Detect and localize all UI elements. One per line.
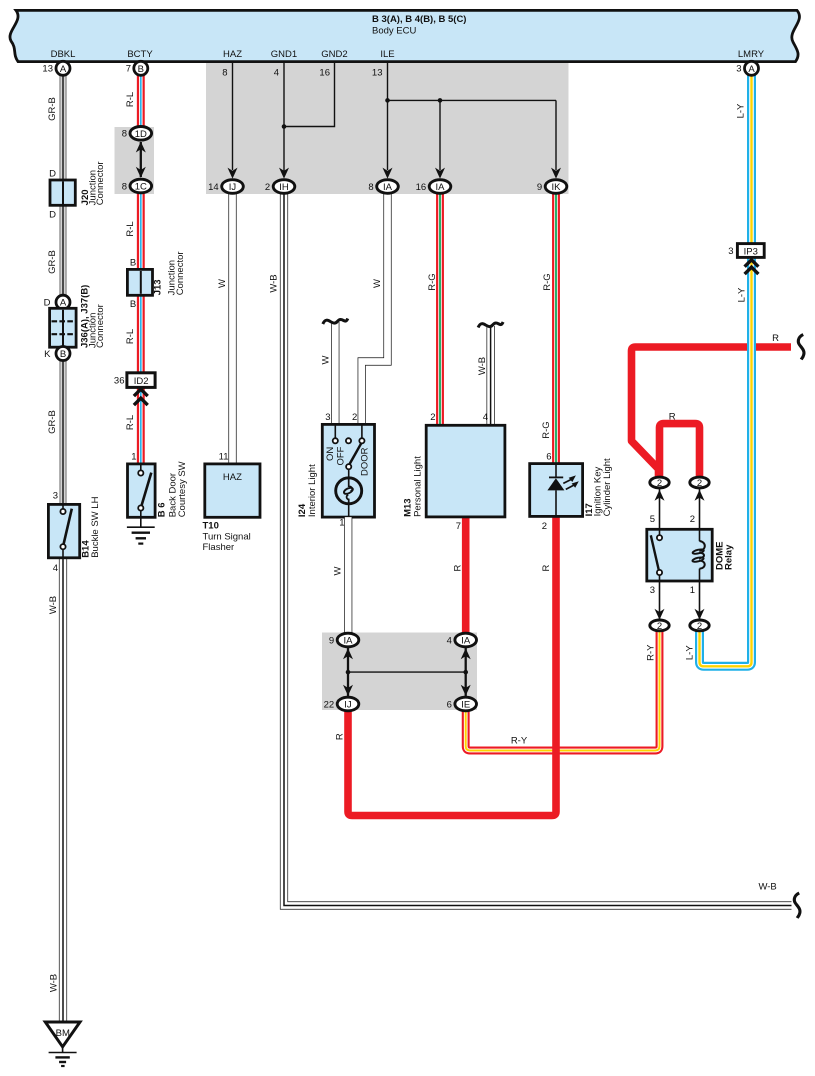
svg-text:2: 2 <box>697 478 702 489</box>
wire W IJ to T10 <box>228 193 236 464</box>
svg-text:W-B: W-B <box>477 357 488 375</box>
svg-text:W-B: W-B <box>48 596 59 614</box>
wire W-B B14 to BM ground <box>59 558 67 1022</box>
svg-text:W: W <box>333 566 344 575</box>
svg-text:W: W <box>217 279 228 288</box>
wire ILE to IA-16 <box>439 100 441 170</box>
svg-text:R-L: R-L <box>125 415 136 430</box>
svg-text:2: 2 <box>352 412 357 423</box>
svg-text:IE: IE <box>461 700 470 711</box>
svg-text:4: 4 <box>447 635 452 646</box>
svg-text:8: 8 <box>122 129 127 140</box>
wire R-G IA-16 to M13 <box>436 193 444 425</box>
lamp M13 Personal Light <box>426 425 505 517</box>
svg-text:1: 1 <box>339 518 344 529</box>
node junction IJ col <box>346 670 351 675</box>
wire GR-B J36 to B14 <box>59 361 67 505</box>
break symbol R wire <box>798 335 804 360</box>
svg-text:IK: IK <box>552 182 562 193</box>
wire IA-4 to IE-6 <box>465 648 467 696</box>
wire ILE to IK-9 <box>555 100 557 170</box>
svg-text:5: 5 <box>650 514 655 525</box>
wire GR-B DBKL to J20 <box>59 75 67 180</box>
svg-text:DOOR: DOOR <box>360 447 371 476</box>
lamp assembly I24 Interior Light <box>322 424 374 517</box>
wire R-Y relay to IE <box>466 631 660 751</box>
wire R-G IK to I17 <box>552 193 560 463</box>
LED symbol I17 <box>549 476 563 478</box>
svg-text:IA: IA <box>383 182 393 193</box>
svg-text:2: 2 <box>542 521 547 532</box>
svg-text:R: R <box>334 733 345 740</box>
wire L-Y LMRY to dome relay <box>700 75 752 666</box>
svg-text:BM: BM <box>56 1028 70 1039</box>
connector IJ-22 <box>337 697 359 711</box>
wire relay pin1 <box>699 569 701 620</box>
svg-text:D: D <box>44 298 51 309</box>
svg-text:14: 14 <box>208 182 219 193</box>
relay switch blade <box>651 535 659 571</box>
connector 2 relay top-left <box>650 477 669 488</box>
svg-text:R-G: R-G <box>541 421 552 438</box>
wire ILE to IA-8 <box>387 100 389 170</box>
svg-text:D: D <box>49 169 56 180</box>
lamp I17 Ignition Key Cylinder Light <box>530 464 583 517</box>
svg-text:13: 13 <box>42 64 53 75</box>
svg-text:11: 11 <box>219 451 229 462</box>
svg-text:W: W <box>320 355 331 364</box>
svg-text:2: 2 <box>430 412 435 423</box>
wire W-B M13 pin4 break <box>487 326 495 425</box>
svg-text:A: A <box>748 64 755 75</box>
svg-text:ID2: ID2 <box>134 376 149 387</box>
svg-text:3: 3 <box>736 64 741 75</box>
svg-text:B 6: B 6 <box>156 503 167 518</box>
svg-text:Connector: Connector <box>95 304 106 348</box>
node GND junction <box>282 124 287 129</box>
svg-text:R: R <box>772 333 779 344</box>
wire R from break to relay <box>632 347 792 477</box>
svg-text:R-G: R-G <box>542 273 553 290</box>
svg-text:2: 2 <box>697 621 702 632</box>
Body ECU banner <box>10 10 800 61</box>
svg-text:1C: 1C <box>135 182 147 193</box>
connector 1D <box>130 127 152 141</box>
connector circle A J36 <box>56 295 70 309</box>
svg-text:W-B: W-B <box>49 974 60 992</box>
connector IK-9 <box>545 180 567 194</box>
svg-text:R: R <box>453 564 464 571</box>
svg-text:Turn Signal: Turn Signal <box>203 532 251 543</box>
node junction IE col <box>463 670 468 675</box>
svg-text:3: 3 <box>325 412 330 423</box>
svg-text:LMRY: LMRY <box>738 49 765 60</box>
svg-text:1D: 1D <box>135 129 147 140</box>
svg-text:7: 7 <box>126 64 131 75</box>
svg-text:R-Y: R-Y <box>645 644 656 661</box>
svg-text:2: 2 <box>657 478 662 489</box>
svg-text:IH: IH <box>279 182 289 193</box>
svg-text:HAZ: HAZ <box>223 49 242 60</box>
break symbol W wire <box>323 319 348 325</box>
svg-text:R-G: R-G <box>427 273 438 290</box>
svg-text:R: R <box>669 412 676 423</box>
svg-text:3: 3 <box>650 585 655 596</box>
wire ILE horizontal bus <box>388 99 557 101</box>
connector IE-6 <box>455 697 477 711</box>
svg-text:6: 6 <box>546 451 551 462</box>
connector 2 relay bottom-right <box>690 620 709 631</box>
svg-text:1: 1 <box>690 585 695 596</box>
svg-text:7: 7 <box>456 521 461 532</box>
svg-text:IA: IA <box>436 182 446 193</box>
svg-text:W-B: W-B <box>758 882 776 893</box>
svg-text:4: 4 <box>274 68 279 79</box>
svg-text:GR-B: GR-B <box>47 410 58 434</box>
svg-text:Relay: Relay <box>724 544 735 570</box>
junction connector J13 <box>127 269 152 295</box>
svg-text:3: 3 <box>53 490 58 501</box>
switch B14 Buckle SW LH <box>48 504 79 557</box>
relay T10 Turn Signal Flasher <box>205 464 260 517</box>
svg-text:9: 9 <box>329 635 334 646</box>
svg-text:Courtesy SW: Courtesy SW <box>177 461 188 517</box>
ground below B6 <box>140 517 142 527</box>
svg-text:IA: IA <box>344 636 354 647</box>
connector IJ-14 <box>222 180 244 194</box>
svg-text:Flasher: Flasher <box>203 542 235 553</box>
svg-text:4: 4 <box>53 563 58 574</box>
svg-text:IJ: IJ <box>344 700 352 711</box>
wire W I24 pin3 break <box>331 322 339 424</box>
wire ILE down <box>387 62 389 101</box>
pin circle A DBKL <box>56 61 70 75</box>
svg-text:L-Y: L-Y <box>685 645 696 660</box>
svg-text:1: 1 <box>131 451 136 462</box>
svg-text:W-B: W-B <box>269 274 280 292</box>
connector 1C <box>130 179 152 193</box>
connector ID2 <box>127 373 155 388</box>
connector IA-4 <box>455 633 477 647</box>
wire W I24 pin1 to IA-9 <box>344 517 352 633</box>
svg-text:Connector: Connector <box>95 161 106 205</box>
switch B6 Back Door Courtesy SW <box>128 464 156 517</box>
wire GR-B J20 to J36 <box>59 205 67 295</box>
wire relay pin2 <box>699 488 701 542</box>
svg-text:B: B <box>130 258 136 269</box>
connector IA-8 <box>377 180 399 194</box>
wire R M13 pin7 to IA-4 <box>462 517 470 633</box>
svg-text:R-L: R-L <box>125 221 136 236</box>
wire relay pin5 <box>659 488 661 535</box>
wire IA-9 to IJ-22 <box>347 648 349 696</box>
connector 2 relay top-right <box>690 477 709 488</box>
svg-text:9: 9 <box>537 182 542 193</box>
pin circle A LMRY <box>745 61 759 75</box>
junction connector J20 <box>50 180 75 205</box>
svg-text:HAZ: HAZ <box>223 472 242 483</box>
svg-text:R-Y: R-Y <box>511 736 528 747</box>
svg-text:16: 16 <box>416 182 427 193</box>
svg-text:GND1: GND1 <box>271 49 297 60</box>
wire W IA-8 to I24 pin2 <box>362 193 388 424</box>
connector circle B J36 <box>56 347 70 361</box>
svg-text:6: 6 <box>447 699 452 710</box>
node connector-block shading IA/IJ/IE <box>322 633 477 711</box>
svg-text:16: 16 <box>319 68 330 79</box>
svg-text:13: 13 <box>372 68 383 79</box>
svg-text:J13: J13 <box>152 279 163 295</box>
break symbol W-B wire <box>478 322 503 328</box>
svg-text:L-Y: L-Y <box>736 103 747 118</box>
svg-text:3: 3 <box>728 246 733 257</box>
bulb I24 <box>336 478 362 504</box>
svg-text:Personal Light: Personal Light <box>412 456 423 517</box>
svg-text:B 3(A), B 4(B), B 5(C): B 3(A), B 4(B), B 5(C) <box>372 14 466 25</box>
wire R-L ID2 to B6 <box>137 387 145 464</box>
svg-text:8: 8 <box>368 182 373 193</box>
svg-text:2: 2 <box>657 621 662 632</box>
svg-text:8: 8 <box>222 68 227 79</box>
connector chevrons ID2 <box>134 389 148 396</box>
connector 2 relay bottom-left <box>650 620 669 631</box>
wire HAZ to IJ <box>232 62 234 170</box>
svg-text:Interior Light: Interior Light <box>307 464 318 517</box>
svg-text:B: B <box>60 349 66 360</box>
svg-text:Cylinder Light: Cylinder Light <box>602 458 613 516</box>
wire R-L J13 to ID2 <box>137 295 145 372</box>
svg-text:GND2: GND2 <box>321 49 347 60</box>
svg-text:L-Y: L-Y <box>736 287 747 302</box>
wire R-L BCTY to 1D <box>137 75 145 127</box>
connector chevrons IP3 <box>745 260 759 267</box>
svg-text:B: B <box>138 64 144 75</box>
svg-text:GR-B: GR-B <box>47 250 58 274</box>
svg-text:Body ECU: Body ECU <box>372 26 416 37</box>
connector IH-2 <box>273 180 295 194</box>
wire relay pin3 <box>659 575 661 620</box>
svg-text:IJ: IJ <box>229 182 237 193</box>
relay coil <box>699 541 705 569</box>
svg-text:W: W <box>372 279 383 288</box>
svg-text:4: 4 <box>483 412 488 423</box>
svg-text:R: R <box>541 564 552 571</box>
svg-text:BCTY: BCTY <box>127 49 153 60</box>
wire GND1 to IH <box>283 62 285 172</box>
wire R I17 to IJ-22 <box>348 516 556 815</box>
svg-text:22: 22 <box>324 699 335 710</box>
svg-text:B: B <box>130 299 136 310</box>
svg-text:36: 36 <box>114 376 125 387</box>
svg-text:R-L: R-L <box>125 329 136 344</box>
svg-text:T10: T10 <box>203 521 219 532</box>
svg-text:D: D <box>49 210 56 221</box>
svg-text:K: K <box>44 349 51 360</box>
connector IP3 <box>737 244 764 258</box>
wire W-B IH to bottom right <box>284 193 792 905</box>
node ILE junction 2 <box>438 98 443 103</box>
switch blade I24 <box>349 443 361 464</box>
connector IA-9 <box>337 633 359 647</box>
wire R relay jumper <box>660 424 700 478</box>
svg-text:2: 2 <box>265 182 270 193</box>
svg-text:IA: IA <box>461 636 471 647</box>
svg-text:A: A <box>60 64 67 75</box>
wire crossover <box>348 671 466 673</box>
node connector-block shading top <box>206 63 569 194</box>
svg-text:Connector: Connector <box>175 251 186 295</box>
connector IA-16 <box>429 180 451 194</box>
node connector-block shading 1D/1C <box>115 127 155 194</box>
svg-text:GR-B: GR-B <box>47 97 58 121</box>
wire 1D to 1C <box>140 142 142 177</box>
svg-text:IP3: IP3 <box>744 246 758 257</box>
svg-text:8: 8 <box>122 181 127 192</box>
break symbol W-B wire bottom <box>794 893 800 918</box>
svg-text:2: 2 <box>690 514 695 525</box>
svg-text:R-L: R-L <box>125 92 136 107</box>
ground BM <box>45 1022 80 1047</box>
relay DOME <box>647 529 712 581</box>
pin circle B BCTY <box>134 61 148 75</box>
wire R-L 1C to J13 <box>137 192 145 269</box>
junction connector J36/J37 <box>50 308 77 347</box>
wire GND2 joins GND1 <box>284 62 335 127</box>
svg-text:Buckle SW LH: Buckle SW LH <box>90 496 101 557</box>
svg-text:OFF: OFF <box>335 446 346 465</box>
svg-text:DBKL: DBKL <box>51 49 76 60</box>
svg-text:ILE: ILE <box>380 49 394 60</box>
node ILE junction 1 <box>385 98 390 103</box>
